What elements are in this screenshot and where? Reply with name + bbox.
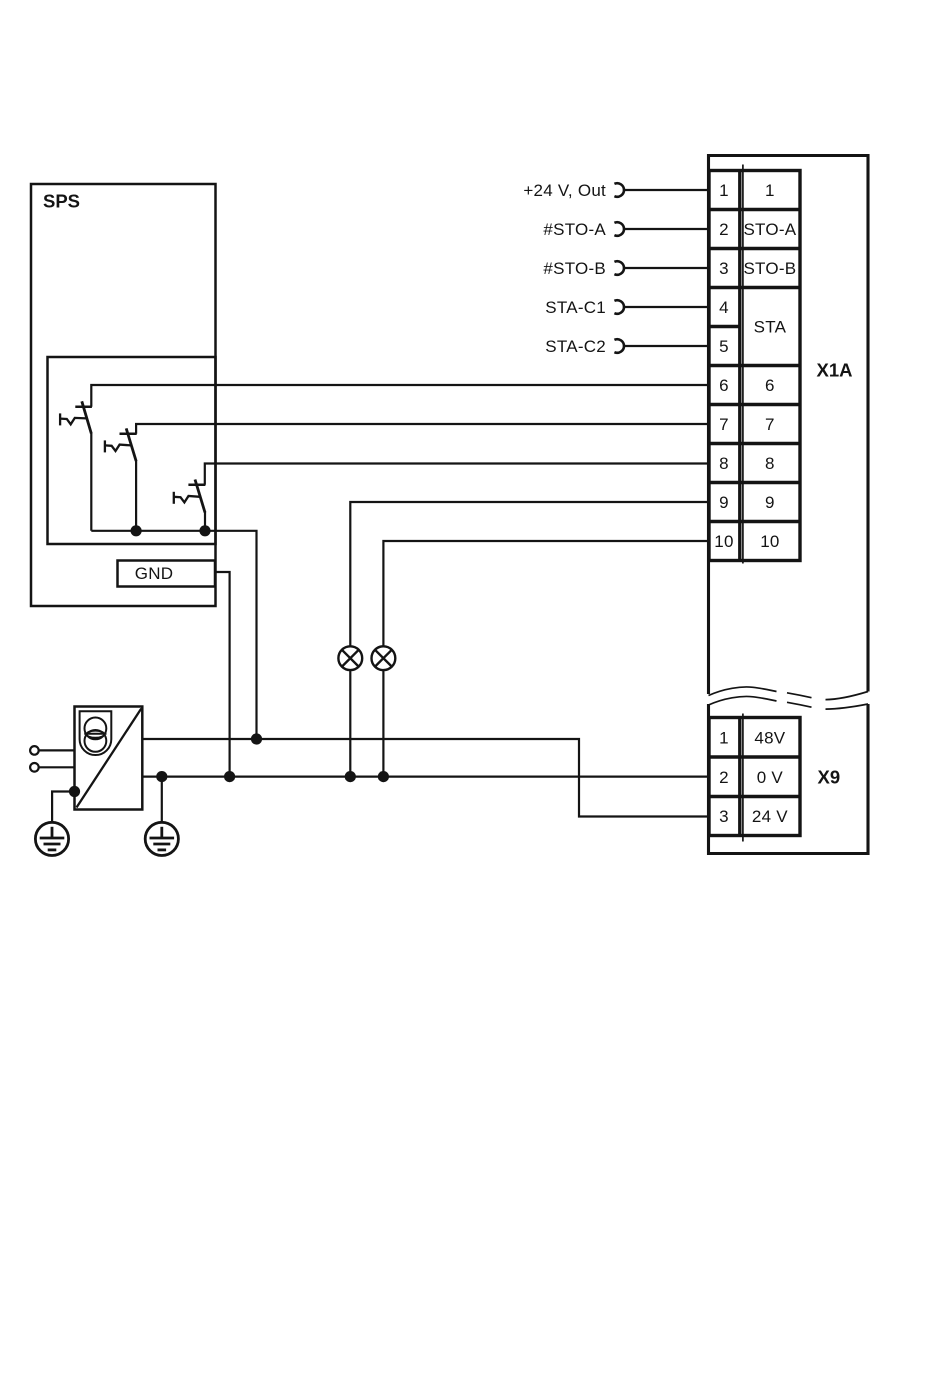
junction lamp H1 on 0V rail — [345, 771, 356, 782]
junction S2 on common bus — [131, 525, 142, 536]
switch S3 actuator zigzag — [174, 492, 200, 504]
svg-text:+24 V, Out: +24 V, Out — [523, 181, 606, 200]
wire 0V rail to earth PE2 — [161, 777, 163, 823]
junction common bus to 24V rail — [251, 733, 262, 744]
svg-text:STA-C1: STA-C1 — [545, 298, 606, 317]
GND box — [118, 561, 216, 587]
switch contact S1 fixed bar — [75, 405, 92, 408]
svg-text:4: 4 — [719, 298, 729, 317]
junction lamp H2 on 0V rail — [378, 771, 389, 782]
wire S2 blade to common bus — [135, 460, 137, 531]
connector X1A pin block grid — [709, 165, 800, 564]
svg-text:1: 1 — [719, 728, 729, 747]
svg-text:#STO-B: #STO-B — [543, 259, 606, 278]
svg-text:2: 2 — [719, 220, 729, 239]
transformer core lens — [87, 731, 105, 738]
wire switch S2 to X1A pin 7 — [136, 424, 709, 434]
svg-text:48V: 48V — [754, 728, 785, 747]
svg-text:24 V: 24 V — [752, 807, 788, 826]
svg-text:9: 9 — [765, 493, 775, 512]
wire switch S3 to X1A pin 8 — [205, 464, 709, 485]
transformer core line — [84, 733, 106, 735]
svg-text:8: 8 — [719, 454, 729, 473]
protective earth symbol PE2 — [145, 822, 178, 855]
indicator lamp H1 — [338, 646, 362, 670]
power supply diagonal divider — [77, 709, 142, 808]
svg-text:X1A: X1A — [817, 360, 853, 381]
switch S1 actuator zigzag — [60, 413, 86, 425]
svg-text:9: 9 — [719, 493, 729, 512]
protective earth symbol PE1 — [35, 822, 68, 855]
svg-text:SPS: SPS — [43, 191, 80, 212]
svg-text:GND: GND — [135, 564, 174, 583]
PLC box SPS — [31, 184, 216, 606]
junction S3 on common bus — [199, 525, 210, 536]
plug contact arc for STA-C2 — [614, 339, 624, 353]
svg-text:7: 7 — [765, 415, 775, 434]
plug contact arc for #STO-A — [614, 222, 624, 236]
mains input terminal L — [30, 746, 39, 755]
transformer enclosure (rounded tube) — [80, 711, 112, 755]
wire lamp H1 to 0V rail — [349, 670, 351, 777]
wire #STO-B to X1A — [624, 267, 709, 269]
svg-text:3: 3 — [719, 807, 729, 826]
wire STA-C2 to X1A — [624, 345, 709, 347]
svg-text:10: 10 — [714, 532, 733, 551]
switch contact S2 blade — [126, 428, 136, 461]
wire X1A pin 10 to lamp H2 — [383, 541, 709, 646]
svg-text:#STO-A: #STO-A — [543, 220, 606, 239]
wire power supply to earth PE1 — [52, 792, 74, 823]
break mark (torn edge, upper wavy line) — [709, 687, 869, 700]
svg-text:0 V: 0 V — [757, 768, 784, 787]
wire +24 V, Out to X1A — [624, 189, 709, 191]
svg-text:1: 1 — [719, 181, 729, 200]
svg-text:7: 7 — [719, 415, 729, 434]
indicator lamp H2 — [372, 646, 396, 670]
wire terminal N to power supply — [39, 766, 75, 768]
junction 0V rail to earth PE2 — [156, 771, 167, 782]
wire lamp H2 to 0V rail — [382, 670, 384, 777]
wire 0V rail to X9 pin 2 — [142, 775, 709, 777]
svg-text:6: 6 — [765, 376, 775, 395]
svg-text:8: 8 — [765, 454, 775, 473]
wire 24V rail to X9 pin 3 — [142, 739, 709, 817]
svg-text:STO-B: STO-B — [743, 259, 796, 278]
svg-text:STA: STA — [754, 318, 787, 337]
transformer primary winding circle — [85, 718, 107, 740]
wire S3 blade to common bus — [204, 512, 206, 531]
svg-text:STA-C2: STA-C2 — [545, 337, 606, 356]
power supply unit box T1 — [75, 707, 143, 810]
transformer secondary winding circle — [85, 730, 107, 752]
device outline box (drive controller housing) — [709, 156, 869, 854]
switch S2 actuator zigzag — [105, 440, 131, 452]
svg-text:X9: X9 — [818, 767, 841, 788]
break mark (torn edge, lower wavy line) — [709, 696, 869, 709]
svg-text:2: 2 — [719, 768, 729, 787]
switch contact S3 blade — [195, 480, 205, 513]
wire STA-C1 to X1A — [624, 306, 709, 308]
svg-text:1: 1 — [765, 181, 775, 200]
wire S1 blade to common bus — [90, 433, 92, 531]
wire #STO-A to X1A — [624, 228, 709, 230]
plug contact arc for +24 V, Out — [614, 183, 624, 197]
junction power supply PE — [69, 786, 80, 797]
svg-text:6: 6 — [719, 376, 729, 395]
switch contact S3 fixed bar — [188, 484, 205, 487]
switch contact S1 blade — [82, 401, 92, 433]
wire X1A pin 9 to lamp H1 — [350, 502, 709, 646]
wire switch S1 to X1A pin 6 — [91, 385, 709, 407]
plug contact arc for #STO-B — [614, 261, 624, 275]
svg-text:3: 3 — [719, 259, 729, 278]
wire switch common bus — [91, 531, 256, 739]
svg-text:STO-A: STO-A — [743, 220, 796, 239]
wire GND to 0V rail — [215, 572, 230, 777]
mains input terminal N — [30, 763, 39, 772]
switch contact S2 fixed bar — [120, 433, 137, 436]
plug contact arc for STA-C1 — [614, 300, 624, 314]
junction GND wire on 0V rail — [224, 771, 235, 782]
svg-text:10: 10 — [760, 532, 779, 551]
inner contact group box — [48, 357, 216, 544]
connector X9 pin block grid — [709, 714, 800, 842]
svg-text:5: 5 — [719, 337, 729, 356]
wire terminal L to power supply — [39, 749, 75, 751]
